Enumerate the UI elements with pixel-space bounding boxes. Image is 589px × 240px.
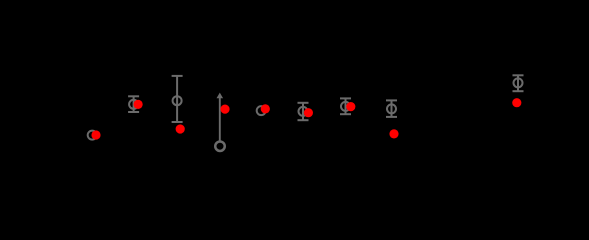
point 2 actual value dot: [134, 100, 143, 109]
point 8 error bar: [386, 100, 397, 117]
point 2 error bar: [128, 96, 139, 112]
point 8 actual value dot: [389, 129, 398, 138]
point 1 actual value dot: [91, 130, 100, 139]
point 9 actual value dot: [512, 98, 521, 107]
point 5 actual value dot: [261, 104, 270, 113]
point 7 error bar: [340, 98, 351, 114]
point 5 estimate marker: [257, 106, 266, 115]
point 9 error bar: [513, 75, 524, 91]
point 7 actual value dot: [346, 102, 355, 111]
point 6 actual value dot: [304, 108, 313, 117]
point 3 actual value dot: [176, 124, 185, 133]
point 2 estimate marker: [129, 100, 138, 109]
point 3 estimate marker: [173, 96, 182, 105]
point 9 estimate marker: [514, 78, 523, 87]
point 4 lower-limit arrow shaft: [219, 98, 221, 142]
point 1 estimate marker: [88, 131, 97, 140]
point 4 estimate marker: [215, 141, 225, 151]
point 4 arrow head: [217, 93, 224, 99]
point 4 actual value dot: [220, 105, 229, 114]
point 8 estimate marker: [387, 104, 396, 113]
point 3 error bar: [172, 76, 183, 122]
point 6 error bar: [298, 103, 309, 120]
point 6 estimate marker: [299, 107, 308, 116]
point 7 estimate marker: [341, 102, 350, 111]
